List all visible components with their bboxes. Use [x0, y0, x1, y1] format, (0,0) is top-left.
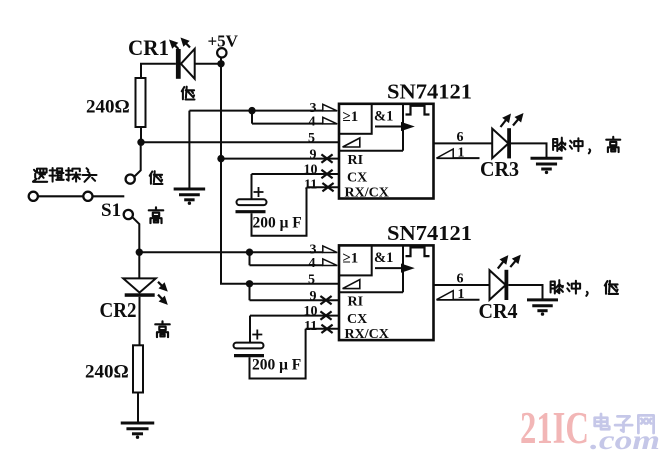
- svg-text:5: 5: [308, 272, 315, 287]
- X mark pin 10: [321, 170, 332, 178]
- node pin3/pin4 IC2: [246, 249, 253, 256]
- wire probe terminals: [38, 195, 83, 197]
- power terminal +5V: [217, 48, 226, 57]
- X mark pin 10: [320, 311, 331, 319]
- svg-text:200 μ F: 200 μ F: [253, 215, 302, 232]
- wire pin 1 output: [437, 299, 480, 301]
- svg-text:RI: RI: [348, 153, 364, 168]
- LED CR4 arrows: [498, 260, 504, 268]
- capacitor C1 200uF: [237, 199, 267, 205]
- wire pin 6 output: [434, 284, 490, 286]
- svg-text:11: 11: [304, 319, 317, 334]
- resistor R2 240 ohm: [133, 345, 143, 392]
- svg-text:≥1: ≥1: [343, 251, 359, 267]
- svg-text:&1: &1: [374, 108, 393, 124]
- wire +5V rail down to IC2 pin 5: [221, 58, 339, 284]
- wire pin 5 IC1 (from probe node): [141, 141, 339, 143]
- wire probe to switch pole: [93, 195, 125, 197]
- svg-text:CX: CX: [347, 312, 367, 327]
- probe terminal 1: [29, 192, 38, 201]
- LED CR1: [176, 49, 181, 79]
- node probe/low junction: [137, 139, 144, 146]
- pulse symbol: [406, 106, 430, 115]
- svg-text:RX/CX: RX/CX: [345, 327, 389, 342]
- wire C2 bottom to pin 11 IC2: [250, 329, 306, 379]
- svg-text:RX/CX: RX/CX: [345, 185, 389, 200]
- svg-text:.com: .com: [590, 425, 660, 455]
- svg-text:11: 11: [304, 178, 317, 193]
- X mark pin 11: [322, 183, 333, 191]
- wire pin 11 IC2: [306, 328, 339, 330]
- X mark pin 9: [320, 296, 331, 304]
- wire LED CR1 to +5V: [195, 63, 221, 65]
- wire pin 4 IC2: [250, 252, 323, 265]
- OR-gate compartment >=1: [339, 104, 372, 134]
- LED CR3 arrows: [501, 119, 507, 127]
- wire pin 4 IC1: [252, 111, 323, 124]
- node S1/CR2 junction: [136, 249, 143, 256]
- wire high contact hook down to node: [133, 217, 140, 252]
- wire pin 1 output: [437, 157, 480, 159]
- output triangle pin 1: [437, 149, 454, 158]
- svg-text:S1: S1: [101, 200, 121, 221]
- svg-text:CR1: CR1: [128, 35, 169, 60]
- X mark pin 11: [321, 325, 332, 333]
- trigger arrow: [375, 267, 401, 269]
- svg-text:9: 9: [310, 289, 317, 304]
- LED CR3: [492, 129, 508, 159]
- input triangle pin 4: [323, 117, 337, 124]
- svg-text:+5V: +5V: [208, 32, 239, 51]
- wire resistor R2 to ground: [137, 393, 139, 423]
- trigger arrow: [375, 126, 401, 128]
- svg-text:200 μ F: 200 μ F: [252, 357, 301, 374]
- wire pin 6 output: [434, 142, 492, 144]
- svg-text:10: 10: [304, 163, 318, 178]
- svg-text:4: 4: [309, 256, 316, 271]
- svg-text:≥1: ≥1: [343, 109, 359, 125]
- svg-text:CR2: CR2: [100, 298, 137, 322]
- svg-text:10: 10: [304, 304, 318, 319]
- wire LED CR4 to ground: [508, 285, 542, 299]
- probe terminal 2: [83, 192, 92, 201]
- switch S1 contact high: [124, 210, 133, 219]
- wire S1 node to pin 3 IC2: [139, 251, 322, 253]
- svg-text:SN74121: SN74121: [387, 80, 472, 104]
- IC U1 SN74121 outline: [339, 104, 434, 199]
- wire junction to LED CR2: [138, 252, 140, 278]
- wire resistor R1 bottom to node: [140, 127, 142, 142]
- label pulse, low: [551, 280, 563, 293]
- wire pin 10 IC2: [250, 316, 339, 342]
- ground (below R2): [121, 422, 155, 425]
- wire pin 9 IC1: [221, 158, 339, 160]
- IC U2 SN74121 outline: [339, 245, 434, 340]
- svg-text:SN74121: SN74121: [387, 221, 472, 245]
- label low (under CR1): [182, 87, 195, 100]
- svg-text:9: 9: [310, 147, 317, 162]
- wire LED CR2 to resistor R2: [139, 297, 141, 346]
- svg-text:&1: &1: [374, 250, 393, 266]
- wire C1 bottom to pin 11 IC1: [252, 187, 307, 236]
- wire pin 9 IC2: [250, 284, 340, 300]
- resistor R1 240 ohm: [136, 78, 146, 127]
- svg-text:6: 6: [457, 272, 464, 287]
- wire resistor R1 top to LED CR1: [141, 64, 176, 78]
- AND compartment &1: [402, 245, 404, 292]
- input triangle pin 3: [323, 246, 337, 253]
- svg-text:CR3: CR3: [480, 157, 519, 181]
- node +5V junction: [217, 60, 224, 67]
- wire pin 3 IC1: [189, 110, 322, 112]
- label low (at switch): [150, 171, 163, 184]
- ground (A-inputs IC1): [188, 111, 190, 189]
- svg-text:4: 4: [309, 114, 316, 129]
- wire pin 11 IC1: [307, 186, 340, 188]
- output triangle pin 1: [437, 291, 454, 300]
- label high (at switch): [149, 207, 163, 223]
- wire pin 10 IC1: [252, 174, 340, 199]
- OR-gate compartment >=1: [339, 245, 372, 275]
- svg-text:240Ω: 240Ω: [85, 362, 129, 383]
- LED CR2 arrows: [158, 282, 163, 287]
- wire low contact hook up to node: [134, 142, 140, 176]
- LED CR1 arrows: [174, 44, 179, 49]
- capacitor C2 200uF: [234, 343, 264, 349]
- svg-text:240Ω: 240Ω: [86, 97, 130, 118]
- node +5V rail to pin 9 IC2: [246, 280, 253, 287]
- svg-text:1: 1: [458, 146, 465, 161]
- wire LED CR3 to ground: [511, 143, 547, 157]
- B-input edge symbol: [343, 138, 360, 147]
- label pulse, high: [553, 138, 565, 151]
- LED CR2: [123, 278, 156, 292]
- label logic probe (luoji tantou): [33, 169, 47, 182]
- svg-text:1: 1: [458, 287, 465, 302]
- pulse symbol: [406, 247, 430, 256]
- input triangle pin 3: [323, 104, 337, 111]
- X mark pin 9: [321, 154, 332, 162]
- node pin3/pin4 IC1: [248, 107, 255, 114]
- svg-text:6: 6: [457, 130, 464, 145]
- svg-text:5: 5: [308, 131, 315, 146]
- svg-text:CX: CX: [347, 171, 367, 186]
- AND compartment &1: [402, 104, 404, 151]
- label high (at CR2): [155, 321, 169, 337]
- B-input edge symbol: [343, 280, 360, 289]
- svg-text:21IC: 21IC: [520, 403, 589, 453]
- watermark dianziwang: [595, 414, 610, 429]
- node +5V to pin 9 IC1: [217, 155, 224, 162]
- ground (CR3): [531, 157, 563, 160]
- svg-text:CR4: CR4: [479, 299, 518, 323]
- switch S1 contact low: [126, 175, 135, 184]
- svg-text:RI: RI: [348, 295, 364, 310]
- LED CR4: [490, 270, 506, 300]
- input triangle pin 4: [323, 259, 337, 266]
- ground (CR4): [527, 298, 558, 301]
